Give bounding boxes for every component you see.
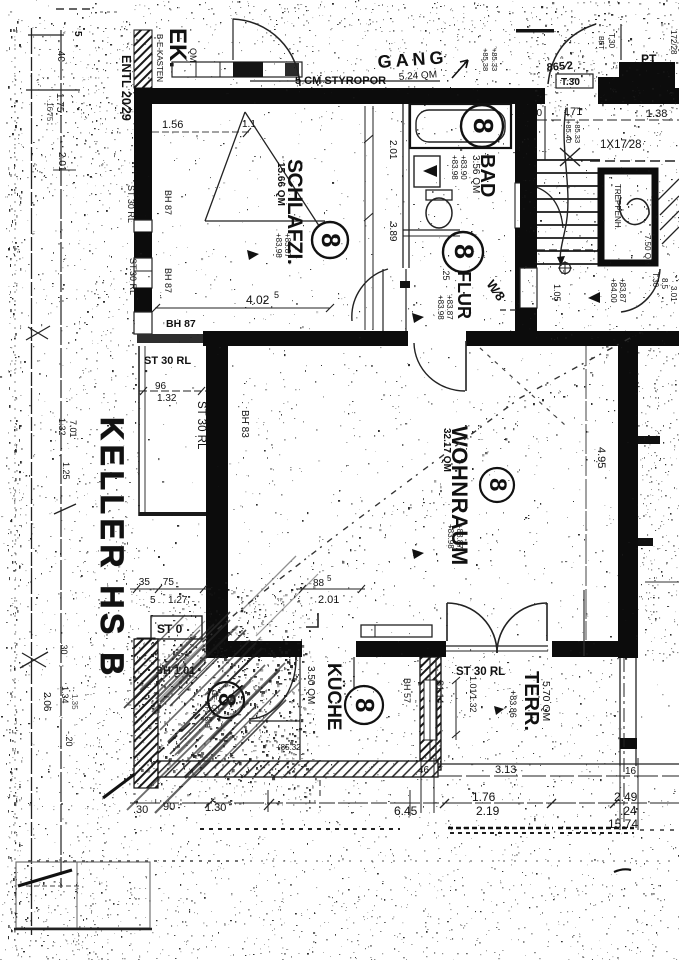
- bad door opening: [515, 183, 532, 228]
- svg-text:+83.98: +83.98: [446, 524, 455, 549]
- svg-text:1X17⁄28: 1X17⁄28: [600, 139, 642, 151]
- svg-text:2.01: 2.01: [318, 594, 339, 606]
- svg-text:1.38: 1.38: [646, 108, 667, 120]
- flur level triangle: [412, 313, 424, 323]
- schlafzi level triangle: [247, 250, 259, 260]
- closet left wall: [138, 346, 140, 516]
- svg-text:FLUR: FLUR: [454, 271, 474, 319]
- svg-text:-.20: -.20: [64, 731, 74, 747]
- svg-text:+83.98: +83.98: [436, 295, 445, 320]
- kuche right wall window: [420, 657, 441, 770]
- svg-text:.25: .25: [441, 268, 451, 281]
- stair treads: [537, 160, 600, 264]
- svg-text:.40: .40: [55, 48, 66, 62]
- svg-text:5: 5: [150, 595, 156, 606]
- extra smudge darkening: [168, 648, 262, 742]
- left wall window 1: [134, 220, 152, 232]
- svg-text:1.32: 1.32: [57, 418, 67, 436]
- svg-text:1.76: 1.76: [472, 790, 496, 804]
- left wall black upper: [134, 88, 152, 220]
- svg-text:16: 16: [625, 766, 637, 777]
- svg-text:ST.30 RL: ST.30 RL: [128, 258, 138, 295]
- svg-text:2.49: 2.49: [614, 790, 638, 804]
- svg-text:96: 96: [155, 381, 167, 392]
- svg-text:ST 30 RL: ST 30 RL: [195, 401, 207, 450]
- svg-text:PT: PT: [641, 52, 657, 66]
- svg-text:5.70 QM: 5.70 QM: [540, 681, 552, 721]
- svg-text:8: 8: [449, 244, 479, 259]
- left wall lower thin: [134, 312, 152, 334]
- double door: [446, 603, 448, 641]
- left margin vertical line faint: [14, 30, 16, 945]
- top-left small dashes: [56, 8, 90, 10]
- cabinet rect: [361, 625, 432, 637]
- stair spiral: [619, 197, 649, 225]
- bad/flur divider: [403, 229, 460, 231]
- circled 8 kuche: [345, 686, 383, 724]
- second diagonal: [480, 348, 565, 425]
- svg-text:+83.98: +83.98: [274, 233, 283, 258]
- svg-text:ST 30 RL: ST 30 RL: [144, 355, 191, 367]
- corner smudge dots: [161, 620, 309, 780]
- svg-text:1.1: 1.1: [242, 119, 256, 130]
- bad door arc: [533, 186, 563, 228]
- triangle left: [588, 292, 600, 303]
- boxed T.30: [556, 74, 593, 88]
- wall left thin part: [137, 334, 203, 343]
- svg-text:.16⁄75: .16⁄75: [45, 100, 54, 122]
- vertical dash line right: [623, 658, 625, 833]
- gang arrow: [452, 60, 468, 78]
- tick y90: [26, 89, 80, 91]
- top wall: [135, 88, 545, 104]
- bad right wall lower: [515, 228, 532, 332]
- tick cross y660: [20, 652, 48, 668]
- svg-text:BH 57: BH 57: [402, 678, 412, 703]
- svg-text:KELLER HS B: KELLER HS B: [94, 417, 130, 680]
- x mark stairs: [560, 148, 580, 166]
- svg-text:8: 8: [468, 118, 499, 134]
- left border vertical line: [31, 28, 33, 935]
- svg-text:1.25: 1.25: [61, 462, 71, 480]
- svg-text:7.50 QM: 7.50 QM: [643, 235, 652, 266]
- svg-text:TERR.: TERR.: [520, 671, 542, 731]
- vline top right: [620, 24, 622, 60]
- schlafzi right dim column: [364, 106, 366, 330]
- svg-text:+83.87: +83.87: [618, 278, 627, 303]
- svg-text:S1.14: S1.14: [435, 680, 445, 704]
- svg-text:5: 5: [327, 574, 332, 583]
- wohnraum left wall: [206, 346, 228, 658]
- dash left of wall: [500, 309, 520, 311]
- door arc EK: [233, 19, 300, 86]
- svg-text:ENTL 20⁄29: ENTL 20⁄29: [119, 55, 133, 121]
- e-kasten bar: [172, 62, 302, 77]
- tick cross y512: [54, 504, 76, 514]
- schlafzi triangle base: [205, 220, 325, 222]
- svg-text:2.06: 2.06: [41, 692, 52, 712]
- left wall pier 1: [134, 232, 152, 258]
- bracket symbol: [306, 613, 318, 627]
- bottom hatch strip: [158, 761, 438, 777]
- terr right wall lines: [619, 658, 621, 766]
- right margin line: [645, 581, 679, 583]
- svg-text:T.30: T.30: [607, 33, 616, 49]
- top right line segment: [516, 29, 554, 33]
- svg-text:B-E-KASTEN: B-E-KASTEN: [155, 34, 164, 82]
- svg-text:.30: .30: [59, 642, 69, 655]
- svg-text:8: 8: [316, 233, 346, 247]
- corner streaks: [148, 612, 286, 762]
- svg-text:+83.90: +83.90: [459, 155, 468, 180]
- flur door arc: [414, 343, 465, 391]
- svg-text:1.34: 1.34: [60, 686, 70, 704]
- terr area: [435, 658, 437, 766]
- wohnraum level triangle: [412, 549, 424, 559]
- schlafzi triangle: [205, 112, 325, 235]
- svg-text:T.30: T.30: [561, 77, 580, 88]
- svg-text:+85.33: +85.33: [573, 120, 582, 143]
- svg-text:KÜCHE: KÜCHE: [323, 663, 344, 731]
- bad right wall upper: [515, 104, 532, 183]
- top right blob 2: [619, 62, 675, 90]
- stairwell lower door arc: [621, 269, 660, 312]
- svg-text:ST 0: ST 0: [157, 622, 183, 636]
- svg-text:BH 87: BH 87: [163, 268, 173, 293]
- flur door leaf: [465, 341, 467, 391]
- wohnraum right wall: [618, 346, 638, 658]
- top wall right segment: [598, 88, 679, 104]
- svg-text:8.5: 8.5: [660, 278, 669, 290]
- svg-text:T.30: T.30: [651, 272, 660, 288]
- dashed line stairs: [590, 160, 679, 162]
- svg-text:1.01⁄1.32: 1.01⁄1.32: [468, 676, 478, 713]
- svg-text:6.45: 6.45: [394, 804, 418, 818]
- left wall window 2: [134, 258, 152, 288]
- corner smudge streaks: [178, 681, 251, 754]
- main diagonal dashed: [134, 338, 630, 706]
- stair walk line: [560, 108, 568, 266]
- svg-text:3.50 QM: 3.50 QM: [305, 666, 316, 704]
- tick y35: [28, 34, 64, 36]
- bottom wall segs: [207, 641, 302, 657]
- schlafzi door jambs: [382, 269, 384, 331]
- hatch sq corner: [137, 638, 155, 661]
- schlafzi dim line: [152, 131, 252, 133]
- kuche left hatched wall: [134, 639, 158, 788]
- svg-text:1.56: 1.56: [162, 119, 183, 131]
- svg-text:5: 5: [274, 290, 279, 300]
- svg-text:BH 87: BH 87: [163, 190, 173, 215]
- svg-text:7.01: 7.01: [68, 420, 78, 438]
- right wall nubs: [638, 436, 660, 444]
- corner hatch stairs: [658, 179, 679, 244]
- circled 8 wohnraum: [480, 468, 514, 502]
- schlafzi dim line bottom: [155, 307, 330, 309]
- svg-text:46: 46: [418, 765, 430, 776]
- svg-text:.75: .75: [160, 577, 174, 588]
- svg-text:172/28: 172/28: [669, 30, 678, 55]
- svg-text:8: 8: [484, 478, 511, 491]
- svg-text:+83.87: +83.87: [283, 233, 292, 258]
- svg-text:2.01: 2.01: [387, 140, 398, 160]
- stairs left wall full: [520, 104, 537, 268]
- svg-text:4.02: 4.02: [246, 293, 270, 307]
- ST 0 box: [151, 616, 202, 639]
- svg-text:+83.87: +83.87: [445, 295, 454, 320]
- toilet: [426, 190, 452, 200]
- bathtub: [410, 104, 511, 148]
- door jamb line right of double door: [583, 590, 585, 656]
- bottom left rect: [16, 862, 150, 928]
- stairwell box: [601, 171, 655, 263]
- svg-text:4.95: 4.95: [595, 447, 607, 468]
- bottom dim line: [130, 802, 679, 804]
- svg-text:QM: QM: [188, 48, 198, 63]
- svg-text:1.27: 1.27: [168, 595, 188, 606]
- circle plus: [560, 263, 571, 274]
- schlafzi/bad thin wall: [402, 104, 404, 268]
- bottom thin lines right: [438, 763, 679, 765]
- svg-text:BH 87: BH 87: [166, 318, 196, 330]
- stairs left wall upper: [520, 104, 537, 106]
- circled 8 bad: [461, 105, 503, 147]
- svg-text:2.01: 2.01: [56, 152, 67, 172]
- kitchen interior verticals: [319, 760, 321, 800]
- svg-text:1.32: 1.32: [157, 393, 177, 404]
- svg-text:3.56 QM: 3.56 QM: [470, 155, 481, 193]
- sink: [414, 156, 440, 187]
- svg-text:ST 30 RL: ST 30 RL: [456, 666, 505, 678]
- speckle row: [28, 860, 240, 862]
- svg-text:2.19: 2.19: [476, 804, 500, 818]
- svg-text:171: 171: [564, 106, 582, 118]
- schlafzi door arc: [352, 269, 388, 321]
- circled 8 flur: [443, 232, 483, 272]
- tick cross y332: [26, 326, 50, 340]
- top right door arc: [548, 24, 596, 84]
- styropor line: [250, 80, 440, 82]
- svg-text:TREPPENH.: TREPPENH.: [613, 184, 622, 230]
- svg-text:8: 8: [350, 698, 380, 712]
- top right blob 1: [598, 77, 621, 90]
- circled 8 left kuche: [208, 682, 244, 718]
- circled 8 schlafzi: [312, 222, 348, 258]
- EK room hatched wall: [134, 30, 152, 88]
- closet bottom: [139, 512, 207, 516]
- left dim vertical line: [60, 30, 62, 888]
- inner face line: [585, 346, 587, 640]
- svg-text:1.30: 1.30: [205, 802, 226, 814]
- svg-text:+85.33: +85.33: [490, 48, 499, 71]
- svg-text:+83.98: +83.98: [450, 155, 459, 180]
- svg-text:3.01: 3.01: [669, 286, 678, 302]
- main middle wall: [203, 331, 408, 346]
- svg-text:+84.00: +84.00: [609, 278, 618, 303]
- dotted strips: [448, 827, 553, 830]
- svg-text:3.89: 3.89: [387, 222, 398, 242]
- svg-text:32.17 QM: 32.17 QM: [441, 428, 452, 472]
- kuche door arc: [249, 659, 296, 719]
- svg-text:+83.86: +83.86: [508, 690, 518, 718]
- left wall pier 2: [134, 288, 152, 312]
